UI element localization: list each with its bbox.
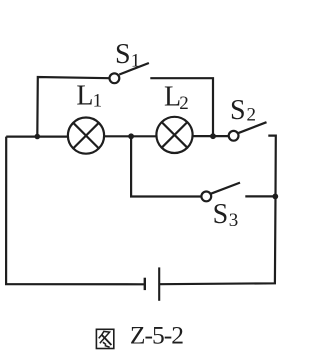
svg-text:2: 2 [247, 104, 257, 125]
svg-text:1: 1 [131, 50, 141, 71]
svg-text:S: S [230, 95, 246, 126]
svg-text:Z-5-2: Z-5-2 [130, 321, 183, 350]
svg-text:1: 1 [93, 91, 103, 112]
svg-text:S: S [213, 199, 229, 230]
svg-text:3: 3 [229, 210, 239, 231]
svg-text:S: S [115, 39, 131, 70]
svg-text:2: 2 [179, 93, 189, 114]
svg-text:L: L [76, 80, 93, 111]
